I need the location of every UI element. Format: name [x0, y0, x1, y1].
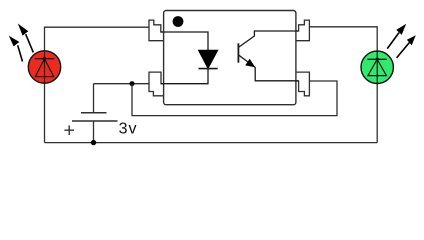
wire: opto pin 4 to green LED anode — [309, 27, 377, 51]
opto pin 3 tab (bottom-right) — [296, 72, 310, 96]
wire: battery positive to bottom rail — [93, 121, 95, 143]
opto internal LED wiring — [161, 32, 208, 84]
svg-text:3v: 3v — [119, 121, 138, 138]
wire: bottom rail — [45, 142, 378, 144]
wire: green LED cathode down to bottom rail — [376, 84, 378, 143]
opto pin 4 tab (top-right) — [296, 20, 310, 41]
wire: red LED cathode down to bottom rail — [44, 83, 46, 143]
wire: red LED anode to opto pin 1 — [45, 27, 149, 51]
opto phototransistor base bar — [237, 43, 239, 62]
pin 1 marker dot — [173, 16, 184, 27]
opto phototransistor emitter arrowhead — [245, 59, 255, 68]
opto internal LED triangle — [199, 50, 218, 68]
opto phototransistor emitter — [238, 55, 298, 81]
opto phototransistor collector — [238, 31, 298, 47]
light emission arrows (green LED) — [387, 24, 416, 58]
junction node: pin2 / emitter return — [130, 81, 135, 86]
LED D2 (green) — [361, 51, 393, 83]
opto internal LED cathode bar — [199, 68, 218, 70]
opto pin 1 tab (top-left) — [149, 20, 164, 41]
wire: battery negative to opto pin 2 — [94, 83, 149, 85]
wire: node down and across to opto pin 3 — [132, 81, 337, 116]
opto pin 2 tab (bottom-left) — [149, 72, 164, 96]
optocoupler U1 package body — [164, 11, 296, 105]
battery BT1 — [72, 84, 118, 121]
battery plus sign — [64, 125, 74, 135]
light emission arrows (red LED) — [9, 24, 34, 62]
junction: battery / bottom rail — [91, 140, 96, 145]
LED D1 (red) — [28, 51, 60, 83]
